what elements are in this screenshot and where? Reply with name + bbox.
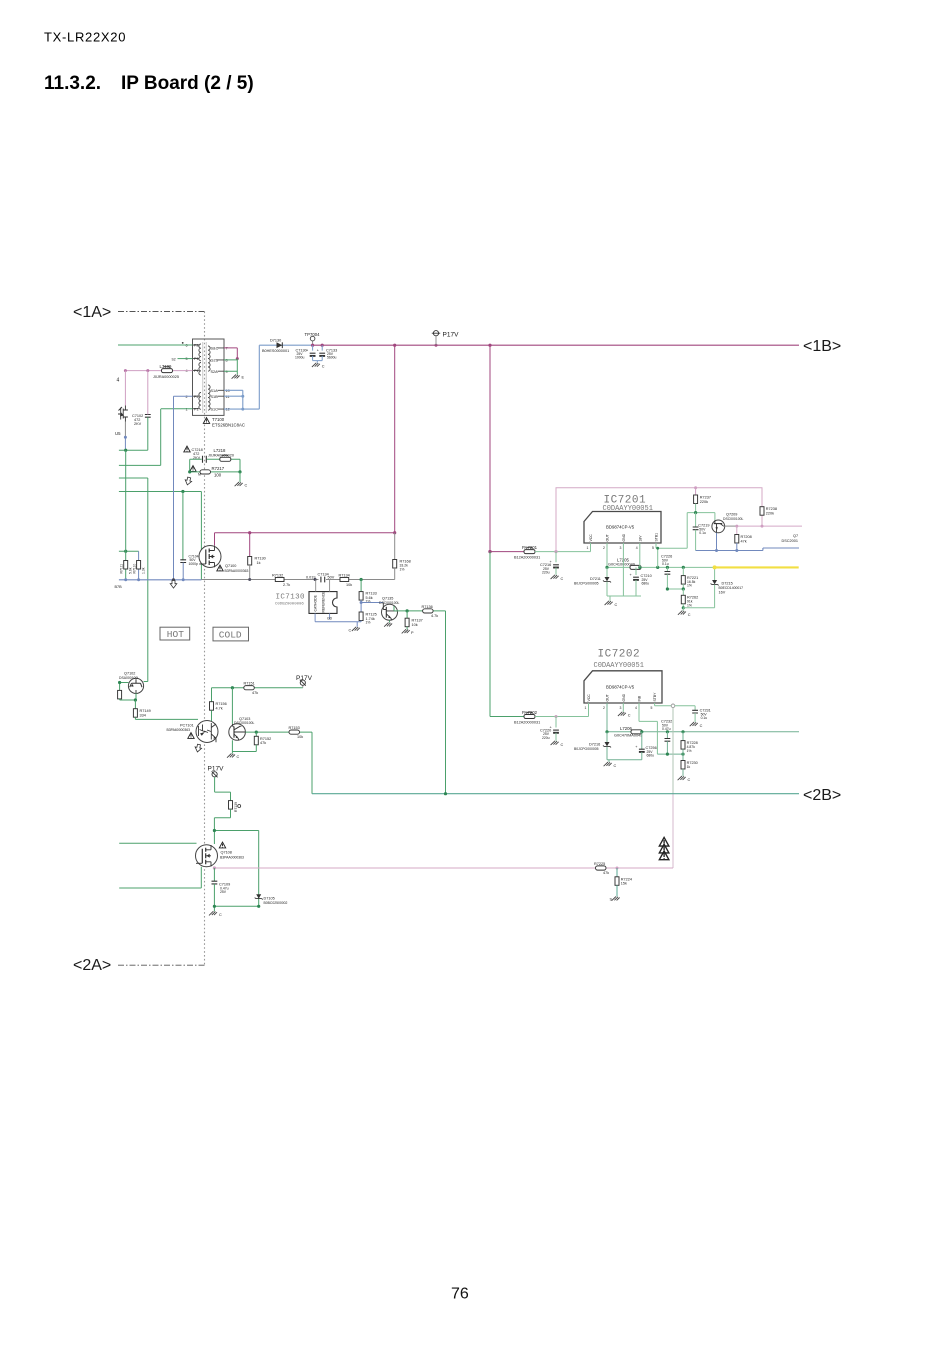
IC7201 pin numbers <box>587 546 655 550</box>
ground S R7224 <box>610 897 620 902</box>
svg-text:R7110: R7110 <box>133 564 137 574</box>
capacitor C7220 label <box>540 728 551 740</box>
svg-text:9: 9 <box>226 370 228 374</box>
resistor R7110 <box>137 561 141 570</box>
wire STB1 pin lead <box>656 513 687 568</box>
svg-text:B3PAA0000363: B3PAA0000363 <box>225 569 249 573</box>
svg-text:P17V: P17V <box>296 675 313 682</box>
junction dot bus P17V <box>435 344 438 347</box>
wire magenta vertical x395 <box>394 345 396 533</box>
junction dot emitter row <box>406 609 409 612</box>
diode D7216 label <box>574 742 600 751</box>
wire Q7108 source row <box>119 867 201 888</box>
junction dot pink box bottom <box>554 550 557 553</box>
COLD box <box>213 627 249 641</box>
transistor Q7103 <box>229 724 246 741</box>
capacitor C7130 label <box>295 349 307 360</box>
svg-text:<2B>: <2B> <box>803 787 841 804</box>
junction dot R7237 node <box>694 511 697 514</box>
svg-text:B0ECD1400017: B0ECD1400017 <box>719 586 744 590</box>
resistor R7110 label <box>133 564 146 574</box>
junction dot bus x395 <box>393 344 396 347</box>
transistor Q7210 label <box>782 534 799 543</box>
resistor R7130 <box>248 533 252 580</box>
junction dot L7109 left <box>124 369 127 372</box>
wire stub row 450 <box>119 449 148 451</box>
svg-text:S1B: S1B <box>211 395 219 399</box>
ground C Q7103 <box>227 754 240 760</box>
junction dot S1C <box>241 408 244 411</box>
diode D7215 zener <box>683 567 718 607</box>
svg-text:1%: 1% <box>687 603 692 607</box>
capacitor C7133 <box>317 345 325 360</box>
svg-text:C0DAAYY00051: C0DAAYY00051 <box>594 662 644 670</box>
capacitor C7104 label <box>189 555 199 566</box>
capacitor C7104 <box>180 560 186 580</box>
ferrite bead PA7202 <box>490 712 589 718</box>
wire blue pin2 <box>174 396 193 580</box>
wire dash-dot from 1A <box>118 311 205 313</box>
junction dot C7220 top <box>555 715 558 718</box>
resistor R7134 label <box>339 574 353 587</box>
wire R7111 vertical <box>125 450 127 580</box>
svg-text:C: C <box>349 629 352 633</box>
resistor R7136 <box>423 609 434 613</box>
junction dot emitter <box>134 698 137 701</box>
wire blue stby row <box>696 548 799 551</box>
junction dot R7152 top <box>255 731 258 734</box>
wire stub row 478 <box>119 478 148 682</box>
resistor R7217 label <box>198 466 225 478</box>
junction dot pink box R7237 <box>694 486 697 489</box>
svg-text:G0C470MA0049: G0C470MA0049 <box>614 734 642 738</box>
svg-text:B0JCPG000005: B0JCPG000005 <box>574 747 599 751</box>
junction dot L7109 mid <box>146 369 149 372</box>
capacitor C7102 label <box>132 414 143 426</box>
wire STBY long vertical <box>672 708 674 794</box>
wire P17V bus magenta <box>313 344 799 346</box>
svg-text:1%: 1% <box>687 584 692 588</box>
svg-text:C: C <box>245 484 248 488</box>
ground C filter caps <box>312 363 325 369</box>
svg-text:P1: P1 <box>194 357 199 361</box>
junction dot R7217 right <box>238 470 241 473</box>
svg-text:TX-LR22X20: TX-LR22X20 <box>44 30 126 45</box>
svg-text:T7100: T7100 <box>212 417 225 422</box>
svg-text:100: 100 <box>214 473 222 478</box>
junction dot Q7108 top <box>213 829 216 832</box>
capacitor C7102 <box>145 415 151 418</box>
resistor R7237 label <box>700 496 711 504</box>
wire vertical pin1 down <box>119 409 161 466</box>
resistor R7262 label <box>687 596 698 608</box>
wire pink vertical to R7225 row <box>672 794 674 868</box>
svg-text:1%: 1% <box>400 568 405 572</box>
wire R7151 row <box>212 687 303 689</box>
IC7130 block <box>309 591 337 614</box>
svg-text:B0HES0000001: B0HES0000001 <box>262 349 289 353</box>
wire Q7108 gate row <box>119 842 196 844</box>
svg-text:4: 4 <box>186 369 188 373</box>
inductor L7109 wire pink <box>125 370 192 372</box>
wire pink emitter row <box>214 867 673 869</box>
svg-text:1.3k: 1.3k <box>141 567 145 574</box>
wire INB pin route <box>639 703 657 754</box>
resistor R7238 <box>760 507 764 516</box>
svg-text:C: C <box>614 764 617 768</box>
svg-text:1k: 1k <box>257 561 261 565</box>
capacitor C7130 <box>306 345 316 360</box>
isolation boundary dotted line <box>204 312 206 966</box>
transformer pin stubs <box>193 345 225 409</box>
svg-text:OUT: OUT <box>606 534 610 541</box>
resistor R7153 <box>289 730 300 734</box>
transistor Q7103 label <box>234 717 254 725</box>
svg-text:G0C410000049: G0C410000049 <box>608 563 635 567</box>
junction dot 450 <box>124 449 127 452</box>
wire GND pin lead IC7202 <box>622 703 624 712</box>
transformer T7100 body <box>193 339 225 415</box>
svg-text:J0JRA0000025: J0JRA0000025 <box>153 375 179 379</box>
svg-text:2: 2 <box>186 395 188 399</box>
svg-text:3: 3 <box>620 706 622 710</box>
wire P17V zigzag <box>215 792 231 801</box>
diode D7105 zener <box>255 894 263 899</box>
resistor R7149 <box>133 700 137 719</box>
svg-text:P17V: P17V <box>443 332 460 339</box>
ground C IC7130 <box>349 627 360 633</box>
svg-text:1000p: 1000p <box>189 562 199 566</box>
transistor Q7209 <box>712 520 725 533</box>
svg-text:ETS26BN1C8AC: ETS26BN1C8AC <box>212 423 245 428</box>
svg-text:S2A: S2A <box>211 370 219 374</box>
wire STBY to C7231 <box>675 705 695 707</box>
wire OUT bus IC7202 <box>607 703 799 732</box>
resistor R7151 label <box>244 682 259 695</box>
wire STBY pin route <box>655 703 672 706</box>
capacitor C7226 label <box>661 555 672 567</box>
resistor R7111 <box>124 561 128 570</box>
svg-text:P1: P1 <box>194 369 199 373</box>
junction dot Q7102 base <box>118 681 121 684</box>
capacitor C7210 label <box>641 574 652 586</box>
junction dot yellow <box>713 565 717 569</box>
junction dot 491 <box>181 490 184 493</box>
junction dot S1B <box>241 395 244 398</box>
resistor R7217 <box>200 470 211 474</box>
svg-text:GND: GND <box>622 693 626 701</box>
capacitor C7231 label <box>700 709 711 721</box>
svg-text:HOT: HOT <box>167 629 184 640</box>
wire pink vertical left <box>124 371 126 406</box>
resistor R7125 <box>359 603 363 622</box>
transformer T7100 secondary windings <box>208 346 210 410</box>
svg-text:IC7130: IC7130 <box>276 594 306 602</box>
svg-text:0.47u: 0.47u <box>662 727 671 731</box>
wire C7102 top pink <box>147 371 149 415</box>
resistor R7148 <box>118 690 136 700</box>
transistor Q7135 <box>382 603 398 621</box>
svg-text:B3PA60000363: B3PA60000363 <box>167 728 191 732</box>
transistor Q7100 mosfet <box>199 546 221 568</box>
wire Q7209 collector <box>725 525 737 527</box>
capacitor C7133 label <box>326 349 337 360</box>
wire gate feed row 491 <box>119 491 201 493</box>
svg-text:GD: GD <box>327 617 333 621</box>
wire magenta vertical x490 <box>489 345 491 551</box>
wire pink box around IC7201 <box>556 488 762 552</box>
junction dot R7224 top <box>616 867 619 870</box>
svg-text:COLD: COLD <box>219 630 242 641</box>
svg-text:R7217: R7217 <box>212 466 225 471</box>
transistor Q7101 glyph <box>118 406 128 422</box>
junction dot bus C7133 <box>321 344 324 347</box>
svg-text:10k: 10k <box>297 735 303 739</box>
svg-text:C: C <box>628 714 631 718</box>
svg-text:U5: U5 <box>115 431 121 436</box>
svg-text:<2A>: <2A> <box>73 957 111 974</box>
resistor R7151 <box>244 686 255 690</box>
resistor R7133 <box>359 580 363 603</box>
svg-text:P2: P2 <box>194 395 199 399</box>
wire pin6 green <box>118 344 193 346</box>
svg-text:R7151: R7151 <box>244 682 255 686</box>
IC7130 bottom leads <box>315 613 330 621</box>
ground C IC7202 <box>618 712 631 718</box>
resistor R7224 <box>615 868 619 897</box>
transformer T7100 reference label <box>203 417 245 428</box>
svg-text:TP7004: TP7004 <box>305 332 321 337</box>
svg-text:8: 8 <box>226 359 228 363</box>
svg-text:DSC000100L: DSC000100L <box>234 721 254 725</box>
wire pink collector row <box>737 525 802 527</box>
diode D7216 zener <box>603 732 611 760</box>
junction dots OUT bus <box>605 566 685 569</box>
resistor R7139 <box>214 801 232 831</box>
junction dot R7133 bottom <box>360 601 363 604</box>
svg-text:R7111: R7111 <box>120 564 124 574</box>
ground C R7262 <box>678 608 691 617</box>
svg-text:25V: 25V <box>220 890 227 894</box>
wire caps bottom <box>313 361 323 363</box>
svg-text:Q7100: Q7100 <box>225 564 236 568</box>
wire blue short <box>124 437 126 450</box>
wire Q7108 collector feed <box>214 831 258 907</box>
junction dots source bus <box>124 578 185 581</box>
svg-text:4: 4 <box>117 378 120 384</box>
ferrite bead PA7202 label <box>514 710 540 724</box>
svg-text:S2: S2 <box>172 357 176 361</box>
wire pin8 green <box>224 359 237 375</box>
ground C C7231 <box>690 722 703 728</box>
IC7130 top leads <box>316 580 330 592</box>
junction dot row533 left <box>248 531 251 534</box>
diode D7211 zener <box>603 567 611 596</box>
svg-text:47k: 47k <box>252 691 258 695</box>
chassis arrow at source bus <box>170 581 177 589</box>
test point TP7004 <box>310 336 315 345</box>
warning PC7101 <box>188 733 194 739</box>
svg-text:GND: GND <box>622 533 626 541</box>
svg-text:10k: 10k <box>346 583 352 587</box>
wire IC7201 ground bus <box>607 543 641 601</box>
IC7202 pin1 lead <box>588 703 590 717</box>
connector pin circle STBY <box>671 704 675 708</box>
inductor L7109 label <box>153 364 179 379</box>
transistor Q7102 label <box>119 672 139 681</box>
resistor R7149 label <box>140 709 151 717</box>
svg-text:INB: INB <box>638 695 642 701</box>
resistor R7230 label <box>687 761 698 769</box>
svg-text:L7218: L7218 <box>214 448 227 453</box>
capacitor C7220 <box>550 717 559 741</box>
svg-text:B3PAA0000363: B3PAA0000363 <box>220 856 244 860</box>
svg-text:R7225: R7225 <box>594 862 605 866</box>
wire blue S1C <box>224 345 313 409</box>
svg-text:D7130: D7130 <box>270 339 281 343</box>
ground C C7220 <box>551 741 564 747</box>
wire pin1 green <box>161 408 193 410</box>
svg-text:L7109: L7109 <box>160 364 173 369</box>
wire green vertical feed IC7202 <box>489 552 491 717</box>
svg-text:B12A20000031: B12A20000031 <box>514 556 540 560</box>
svg-text:CATHODE: CATHODE <box>314 594 318 611</box>
svg-text:S1C: S1C <box>211 408 219 412</box>
resistor R7228 label <box>687 741 698 753</box>
wire green down to 2B bus <box>445 611 447 794</box>
capacitor C7219 label <box>698 524 709 536</box>
capacitor C7232 <box>665 732 671 754</box>
junction dot pink emitter <box>213 866 216 869</box>
svg-text:P2: P2 <box>194 344 199 348</box>
wire node row 754 <box>657 753 683 755</box>
inductor L7206 label <box>614 726 642 738</box>
svg-text:C: C <box>615 603 618 607</box>
svg-text:C: C <box>700 724 703 728</box>
junction dot bus at TP <box>311 344 314 347</box>
svg-text:DSC000100L: DSC000100L <box>723 517 743 521</box>
svg-text:5: 5 <box>186 357 188 361</box>
junction dot R7217 left <box>188 470 191 473</box>
svg-text:220k: 220k <box>700 500 708 504</box>
svg-text:B0JCPG000005: B0JCPG000005 <box>574 582 599 586</box>
svg-text:VCC: VCC <box>589 534 593 542</box>
svg-text:10: 10 <box>226 389 230 393</box>
wire node row 589 <box>667 588 683 590</box>
ferrite bead PA7201 label <box>514 545 540 560</box>
svg-text:Q7108: Q7108 <box>221 851 232 855</box>
inductor L7205 <box>630 565 641 569</box>
svg-text:47k: 47k <box>741 539 747 543</box>
junction dot blue emitter <box>715 549 718 552</box>
capacitor C7216 label <box>540 563 551 575</box>
svg-text:DSC2001: DSC2001 <box>782 539 798 543</box>
svg-text:16V: 16V <box>719 591 726 595</box>
svg-text:J0JRA0000020: J0JRA0000020 <box>208 453 234 457</box>
inductor L7218 label <box>208 448 234 457</box>
wire segment below Q7101 <box>124 422 126 437</box>
ground C C7216 <box>551 575 564 581</box>
svg-text:11.3.2.: 11.3.2. <box>44 73 101 94</box>
resistor R7156 <box>210 688 214 721</box>
junction dot pin8 <box>236 357 239 360</box>
svg-text:11: 11 <box>226 395 230 399</box>
capacitor C7109 label <box>219 883 230 895</box>
svg-text:C: C <box>237 755 240 759</box>
svg-text:2: 2 <box>603 706 605 710</box>
resistor R7237 <box>694 488 698 513</box>
svg-text:IP Board (2 / 5): IP Board (2 / 5) <box>121 73 254 94</box>
inductor L7206 <box>631 730 642 734</box>
junction dot STB1 <box>656 547 659 550</box>
capacitor C7134 <box>321 577 325 583</box>
wire IC7202 ground bus <box>607 760 642 762</box>
svg-text:76: 76 <box>451 1286 469 1303</box>
resistor R7125 label <box>366 613 377 625</box>
svg-text:STBY: STBY <box>653 692 657 702</box>
svg-text:G2S: G2S <box>211 359 219 363</box>
svg-text:BD9874CP-V5: BD9874CP-V5 <box>606 525 635 530</box>
svg-text:P1: P1 <box>194 407 199 411</box>
wire Q7103 collector row <box>245 732 312 794</box>
junction dot R7238 bottom <box>761 525 764 528</box>
diode D7130 <box>277 342 283 348</box>
transistor Q7209 label <box>723 513 743 521</box>
wire bottom node row <box>214 906 258 911</box>
junction dot blue <box>124 436 127 439</box>
wire to PC7101 <box>135 718 198 720</box>
resistor R7262 <box>681 589 685 608</box>
resistor R7225 <box>596 866 607 870</box>
resistor R7217 warning <box>190 466 196 472</box>
diode D7211 label <box>574 577 601 586</box>
svg-text:<1B>: <1B> <box>803 338 841 355</box>
svg-text:R7132: R7132 <box>272 574 283 578</box>
wire C7102 bottom green <box>147 417 149 450</box>
polarity dot pin6 <box>182 342 184 344</box>
inductor L7205 label <box>608 558 635 567</box>
wire drain row gray <box>201 579 394 581</box>
svg-text:680u: 680u <box>642 582 650 586</box>
resistor R7137 label <box>412 619 423 627</box>
svg-text:3: 3 <box>620 546 622 550</box>
svg-text:47k: 47k <box>603 871 609 875</box>
resistor R7217 wire <box>190 471 240 473</box>
junction dots OUT bus IC7202 <box>605 730 684 733</box>
capacitor C7256 <box>635 732 644 760</box>
wire Q7209 emitter blue <box>716 533 718 551</box>
wire blue S1A S1B <box>224 390 243 409</box>
svg-text:0.1u: 0.1u <box>701 716 708 720</box>
resistor R7132 label <box>272 574 290 587</box>
wire C7218 left drop <box>189 459 191 472</box>
op-amp U2 IC7202 body <box>584 671 662 703</box>
diode D7130 label <box>262 339 289 353</box>
transistor Q7108 mosfet <box>196 845 218 867</box>
wire R7110 vertical blue <box>138 551 140 580</box>
svg-text:R7153: R7153 <box>289 726 300 730</box>
svg-text:C: C <box>688 613 691 617</box>
wire blue Q7135 base <box>361 602 383 604</box>
svg-text:C: C <box>322 365 325 369</box>
svg-text:5: 5 <box>652 546 654 550</box>
ground C IC7202 out <box>604 762 617 768</box>
capacitor C7231 <box>692 706 698 722</box>
svg-text:S1A: S1A <box>211 389 219 393</box>
svg-text:7: 7 <box>226 347 228 351</box>
transistor Q7135 label <box>379 597 399 605</box>
ground E transformer <box>232 375 245 380</box>
